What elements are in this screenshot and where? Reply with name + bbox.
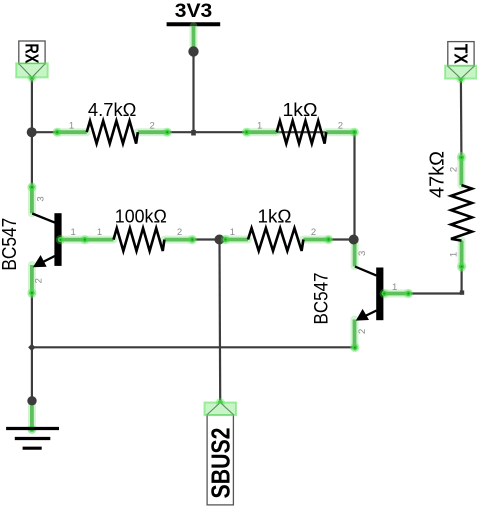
svg-text:2: 2 — [150, 121, 155, 132]
svg-text:2: 2 — [311, 227, 316, 238]
svg-text:TX: TX — [450, 44, 470, 64]
svg-text:2: 2 — [177, 227, 182, 238]
svg-text:3: 3 — [36, 196, 47, 201]
svg-text:3V3: 3V3 — [175, 1, 213, 22]
svg-text:2: 2 — [34, 278, 45, 283]
svg-text:1: 1 — [448, 252, 459, 257]
svg-text:1: 1 — [257, 121, 262, 132]
svg-text:1kΩ: 1kΩ — [258, 207, 292, 227]
svg-text:1kΩ: 1kΩ — [283, 100, 318, 120]
svg-text:100kΩ: 100kΩ — [115, 207, 167, 227]
svg-text:BC547: BC547 — [0, 218, 21, 271]
svg-text:1: 1 — [392, 282, 397, 293]
svg-text:2: 2 — [357, 329, 368, 334]
svg-text:4.7kΩ: 4.7kΩ — [88, 100, 137, 120]
svg-text:1: 1 — [97, 227, 102, 238]
svg-text:1: 1 — [69, 121, 74, 132]
svg-text:2: 2 — [338, 121, 343, 132]
svg-text:1: 1 — [230, 227, 235, 238]
svg-text:47kΩ: 47kΩ — [425, 151, 448, 198]
svg-text:RX: RX — [21, 43, 41, 63]
svg-text:BC547: BC547 — [310, 273, 332, 325]
svg-text:1: 1 — [70, 227, 75, 238]
svg-text:2: 2 — [448, 167, 459, 172]
svg-text:3: 3 — [357, 251, 368, 256]
svg-text:SBUS2: SBUS2 — [206, 428, 235, 499]
